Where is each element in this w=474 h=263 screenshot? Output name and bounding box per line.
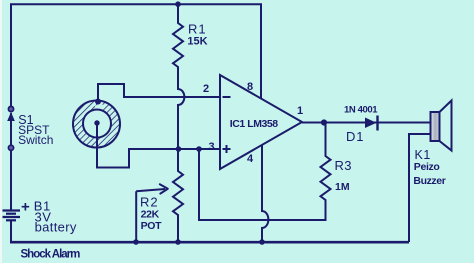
svg-text:1M: 1M [335,181,350,193]
svg-text:battery: battery [35,220,77,235]
svg-text:15K: 15K [187,36,207,48]
svg-text:2: 2 [203,83,209,95]
svg-text:Peizo: Peizo [414,161,440,173]
svg-text:IC1 LM358: IC1 LM358 [230,118,278,130]
svg-text:8: 8 [247,81,253,93]
svg-text:R2: R2 [140,195,159,210]
svg-text:4: 4 [247,153,254,165]
svg-text:22K: 22K [141,209,160,221]
svg-text:1: 1 [297,105,303,117]
svg-text:R3: R3 [335,158,352,173]
svg-text:K1: K1 [415,148,432,162]
svg-text:+: + [21,199,30,216]
svg-text:Buzzer: Buzzer [413,175,445,187]
svg-text:3: 3 [209,141,215,153]
svg-text:1N 4001: 1N 4001 [344,105,378,116]
svg-text:POT: POT [141,220,163,232]
svg-text:D1: D1 [346,129,364,144]
svg-text:Switch: Switch [18,133,53,147]
svg-text:Shock Alarm: Shock Alarm [21,248,81,260]
svg-text:R1: R1 [188,22,207,37]
